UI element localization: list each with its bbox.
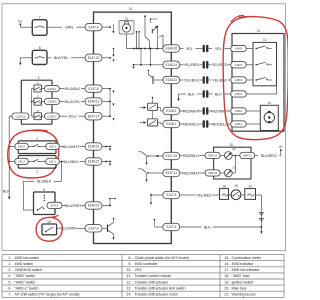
box S13 limit switch (253, 38, 277, 86)
wire fuse 20 to ground junction (256, 195, 264, 234)
svg-text:E147-20: E147-20 (88, 56, 100, 60)
fuse F18 4WD fuse (220, 184, 229, 199)
svg-text:3.: 3. (8, 268, 11, 272)
svg-text:11: 11 (129, 7, 133, 11)
svg-text:E147-5: E147-5 (166, 193, 176, 197)
svg-text:20: 20 (248, 184, 252, 188)
svg-text:YEL: YEL (186, 46, 194, 51)
connector G80-16 (205, 170, 220, 176)
svg-text:13: 13 (263, 38, 267, 42)
wire RED/BLU E147-19 to G80-12 (180, 153, 205, 158)
svg-text:8.: 8. (128, 256, 131, 260)
svg-text:BLU/BLK: BLU/BLK (64, 159, 80, 164)
svg-text:Clutch pedal switch (for M/T m: Clutch pedal switch (for M/T model) (135, 256, 189, 260)
svg-text:L48-2: L48-2 (235, 109, 242, 113)
svg-text:7.: 7. (8, 293, 11, 297)
svg-text:10: 10 (47, 220, 51, 224)
wire internal stub E148-15 (102, 198, 116, 207)
connector E147-8 (85, 85, 102, 92)
svg-text:E148-2: E148-2 (166, 109, 176, 113)
red annotation circle around switches 1 and 2 (8, 130, 59, 178)
wire BLU/RED E74-3 to E148-15 (62, 203, 85, 208)
svg-text:E147-19: E147-19 (166, 154, 178, 158)
connector E148-22 (163, 76, 180, 83)
svg-text:"2WD" switch: "2WD" switch (15, 274, 36, 278)
svg-text:Transfer shift actuator limit: Transfer shift actuator limit switch (135, 287, 186, 291)
wire YEL/GRN VSS to E147-9 (57, 226, 85, 231)
wire buzzer to YEL row (126, 34, 128, 49)
svg-text:L48-6: L48-6 (235, 63, 242, 67)
svg-text:L41-2: L41-2 (18, 160, 25, 164)
wire LED junction to G80-21 (232, 155, 240, 173)
connector E148-15 (85, 202, 102, 209)
svg-text:YEL/BLK: YEL/BLK (212, 77, 227, 82)
svg-text:L40-2: L40-2 (18, 145, 25, 149)
transistor cluster inside module 11 (144, 15, 163, 48)
svg-text:YEL/GRN: YEL/GRN (60, 226, 76, 231)
connector E148-2 (163, 107, 180, 114)
connector L48-3 (231, 77, 247, 83)
svg-text:E147-6: E147-6 (166, 225, 176, 229)
connector G80-12 (205, 152, 220, 158)
wire internal YEL/BLK row (148, 70, 163, 84)
svg-text:BLK/RED: BLK/RED (261, 153, 277, 158)
svg-text:G80-16: G80-16 (208, 171, 218, 175)
svg-text:IG: IG (18, 20, 22, 24)
legend table (2, 255, 284, 298)
wire internal stub E148-21 (102, 161, 111, 166)
svg-text:4WD switch: 4WD switch (15, 262, 34, 266)
svg-text:4WD controller: 4WD controller (135, 262, 159, 266)
inline connector on RED/WHT wire (203, 107, 209, 115)
resistor pair inside module 11 (136, 31, 140, 49)
connector G104-10 (12, 113, 29, 119)
switch S19 ignition switch (231, 184, 241, 199)
svg-text:BLU: BLU (69, 114, 76, 119)
wire L41-2 to ground bus (9, 161, 15, 163)
wire BLK ground to L48-4 (179, 91, 231, 96)
relay coil K1 inside module 11 (140, 103, 163, 111)
switch S5 4WD switch (34, 94, 42, 105)
svg-text:A/T shift switch ("N" range) (: A/T shift switch ("N" range) (for A/T mo… (15, 293, 80, 297)
wire internal stub E147-6 (154, 219, 163, 227)
wire internal YEL row (127, 48, 163, 50)
svg-text:10.: 10. (126, 268, 131, 272)
svg-text:L48-5: L48-5 (235, 47, 242, 51)
svg-text:RED/WHT: RED/WHT (183, 108, 201, 113)
svg-text:6.: 6. (8, 287, 11, 291)
wire BLU/YEL G104-3 to E148-13 (59, 99, 85, 104)
svg-text:21: 21 (125, 16, 129, 20)
motor M14 transfer shift actuator motor (260, 101, 278, 130)
svg-text:BLU/WHT: BLU/WHT (63, 144, 80, 149)
wire BLK E147-6 to ground (180, 224, 262, 229)
connector G104-7 (42, 113, 60, 119)
box S2 4WD switch (18, 156, 56, 174)
svg-text:L40-1: L40-1 (49, 145, 56, 149)
switch S4 2WD switch (34, 81, 42, 92)
svg-text:E148-13: E148-13 (88, 100, 100, 104)
box U15 combination meter (214, 143, 251, 179)
svg-text:RED/WHT: RED/WHT (211, 108, 229, 113)
node IG ignition feed (18, 20, 22, 26)
svg-text:Transfer shift actuator: Transfer shift actuator (135, 280, 169, 284)
svg-text:E147-8: E147-8 (89, 87, 99, 91)
svg-text:YEL/RED: YEL/RED (183, 62, 199, 67)
wire internal YEL/RED row (132, 48, 162, 69)
connector E148-21 (85, 158, 102, 165)
connector E147-2 (85, 23, 102, 30)
svg-text:12.: 12. (126, 280, 131, 284)
connector E147-15 (85, 113, 102, 120)
svg-text:1.: 1. (8, 256, 11, 260)
svg-text:16: 16 (232, 147, 236, 151)
wire fuse 18 to ignition switch (229, 194, 232, 196)
svg-text:17.: 17. (224, 268, 229, 272)
red annotation circle around actuator (223, 15, 288, 139)
wire ground to switch 8 (20, 57, 32, 59)
wire YEL/RED E147-5 to fuse 18 (180, 192, 220, 197)
connector L40-1 (46, 143, 60, 149)
connector L41-2 (15, 158, 28, 164)
switch contacts in limit switch 13 (246, 46, 272, 81)
wire ORN switch 7 to E147-2 (47, 25, 85, 30)
wire internal stub E147-5 (150, 194, 163, 205)
wire BLK/RED G80-21 to IG (255, 150, 281, 158)
svg-text:RED/BLU: RED/BLU (212, 121, 228, 126)
svg-text:9: 9 (43, 188, 45, 192)
svg-text:3: 3 (38, 76, 40, 80)
wire IG to switch 7 (20, 24, 32, 27)
connector E74-3 (47, 202, 62, 208)
connector E147-11 (163, 169, 180, 176)
svg-text:5.: 5. (8, 280, 11, 284)
red annotation circle around VSS (36, 215, 62, 241)
svg-text:2.: 2. (8, 262, 11, 266)
wire L40-2 to ground bus (9, 146, 15, 148)
svg-text:15.: 15. (224, 256, 229, 260)
inline connector on RED/BLU wire (203, 120, 209, 128)
svg-text:9.: 9. (128, 262, 131, 266)
svg-text:L48-3: L48-3 (235, 78, 242, 82)
svg-text:E74-3: E74-3 (51, 204, 59, 208)
svg-text:G80-21: G80-21 (243, 154, 253, 158)
connector E147-6 (163, 223, 180, 230)
svg-text:G104-1: G104-1 (47, 87, 57, 91)
svg-text:18: 18 (222, 184, 226, 188)
svg-text:"4WD-L" switch: "4WD-L" switch (15, 287, 39, 291)
svg-text:Warning buzzer: Warning buzzer (232, 293, 257, 297)
box S3 2WD/4WD switch (21, 76, 52, 124)
connector L48-4 (231, 91, 247, 97)
svg-text:YEL/RED: YEL/RED (196, 192, 212, 197)
wire YEL/BLK E148-22 to L48-3 (180, 77, 231, 82)
wire BLU/BLK G104-1 to E147-8 (59, 86, 85, 91)
ground at switch 8 (19, 58, 21, 65)
wire BLU/BLK L41-1 to E148-21 (59, 159, 85, 164)
indicator LED16 4WD indicator (220, 147, 236, 159)
svg-text:E148-15: E148-15 (88, 204, 100, 208)
svg-text:Main fuse: Main fuse (232, 287, 247, 291)
svg-text:20.: 20. (224, 287, 229, 291)
wire internal stub E147-2 (102, 24, 115, 33)
svg-text:E147-2: E147-2 (89, 25, 99, 29)
transistor Q1 output row E147-19 (138, 152, 163, 165)
connector G104-3 (42, 98, 60, 104)
svg-text:2: 2 (36, 170, 38, 174)
wire YEL/RED E148-24 to L48-6 (180, 62, 231, 67)
wire RED/WHT E147-11 to G80-16 (180, 170, 205, 175)
connector E148-13 (85, 98, 102, 105)
connector L41-1 (46, 158, 60, 164)
svg-text:E148-26: E148-26 (166, 47, 178, 51)
svg-text:YEL/RED: YEL/RED (212, 62, 228, 67)
svg-text:YEL/BLK: YEL/BLK (184, 77, 199, 82)
svg-text:11.: 11. (127, 274, 132, 278)
inline connector on BLK wire (203, 90, 209, 98)
connector E147-19 (163, 152, 180, 159)
indicator LED17 4WD low indicator (220, 166, 236, 177)
box S10 VSS (42, 220, 57, 235)
inline connector on YEL/RED wire (203, 61, 209, 69)
relay coil K2 inside module 11 (140, 97, 163, 126)
svg-text:G80-12: G80-12 (208, 154, 218, 158)
svg-text:G104-7: G104-7 (47, 114, 57, 118)
wire L48-2 to motor (246, 110, 260, 112)
connector L40-2 (15, 143, 28, 149)
transistor Q3 near E147-9 (102, 218, 115, 240)
svg-text:RED/WHT: RED/WHT (182, 170, 200, 175)
box M12 transfer shift actuator (232, 29, 284, 131)
svg-text:BLK: BLK (3, 189, 10, 193)
switch S8 clutch pedal switch (32, 46, 47, 64)
svg-text:E147-9: E147-9 (89, 226, 99, 230)
svg-text:BLK: BLK (204, 224, 211, 229)
inline connector on YEL/BLK wire (203, 76, 209, 84)
connector L48-5 (231, 45, 247, 51)
wire internal stub E147-20 (102, 48, 115, 62)
svg-text:Transfer control module: Transfer control module (135, 274, 172, 278)
svg-text:L48-1: L48-1 (235, 122, 242, 126)
svg-text:19: 19 (234, 184, 238, 188)
svg-text:"4WD" switch: "4WD" switch (15, 280, 36, 284)
svg-text:Ignition switch: Ignition switch (232, 280, 254, 284)
wire BLK/YEL switch 8 to E147-20 (47, 55, 85, 60)
svg-text:L41-1: L41-1 (49, 160, 56, 164)
svg-text:"4WD" fuse: "4WD" fuse (232, 274, 250, 278)
svg-text:E148-16: E148-16 (88, 145, 100, 149)
svg-text:BLK: BLK (188, 91, 195, 96)
wire internal stub E148-16 (102, 146, 111, 151)
svg-text:G104-10: G104-10 (16, 114, 26, 118)
svg-text:BLK: BLK (215, 91, 222, 96)
connector L48-6 (231, 62, 247, 68)
connector E148-26 (163, 45, 180, 52)
svg-text:YEL: YEL (215, 46, 223, 51)
svg-text:18.: 18. (224, 274, 229, 278)
box S1 4WD low switch (18, 137, 56, 154)
svg-text:RED/BLU: RED/BLU (183, 153, 199, 158)
buzzer B21 warning buzzer (119, 16, 134, 34)
svg-text:E148-22: E148-22 (166, 78, 178, 82)
box U9 4WD controller (34, 188, 56, 215)
connector L48-1 (231, 121, 247, 127)
svg-text:4WD indicator: 4WD indicator (232, 262, 255, 266)
connector E148-1 (163, 120, 180, 127)
svg-text:BLU/RED: BLU/RED (65, 203, 81, 208)
svg-text:L48-4: L48-4 (235, 92, 242, 96)
svg-text:ORN: ORN (65, 25, 74, 30)
connector E147-20 (85, 54, 102, 61)
connector G80-21 (240, 152, 255, 158)
connector E147-5 (163, 191, 180, 198)
svg-text:1: 1 (36, 137, 38, 141)
svg-text:Combination meter: Combination meter (232, 256, 262, 260)
wire L48-4 common to limit switch (246, 86, 276, 94)
switch contact S2 (28, 159, 46, 162)
svg-text:BLU/YEL: BLU/YEL (65, 99, 81, 104)
inline connector on YEL wire (203, 45, 209, 53)
switch S6 4WD-L switch (34, 109, 42, 120)
svg-text:IG: IG (279, 145, 283, 149)
svg-text:21.: 21. (224, 293, 229, 297)
wire BLU/BLK switch 2 to 4WD controller (23, 161, 62, 210)
connector L48-2 (231, 108, 247, 114)
svg-text:VSS: VSS (135, 268, 143, 272)
svg-text:E147-11: E147-11 (166, 171, 178, 175)
svg-text:12: 12 (257, 29, 261, 33)
switch contact S1 (28, 144, 46, 147)
wire BLU G104-7 to E147-15 (59, 114, 85, 119)
wire ignition switch to fuse 20 (241, 194, 245, 196)
connector E147-9 (85, 225, 102, 232)
svg-text:E148-1: E148-1 (166, 122, 176, 126)
svg-text:7: 7 (39, 16, 41, 20)
wire RED/BLU E148-1 to L48-1 (180, 121, 231, 126)
svg-text:E148-24: E148-24 (166, 63, 178, 67)
connector G104-1 (42, 85, 60, 91)
svg-text:Transfer shift actuator motor: Transfer shift actuator motor (135, 293, 179, 297)
wire RED/WHT E148-2 to L48-2 (180, 108, 231, 113)
wire YEL E148-26 to L48-5 (180, 46, 231, 51)
svg-text:BLU/BLK: BLU/BLK (37, 180, 52, 184)
wire BLK G104-10 to ground (3, 116, 12, 199)
connector E148-24 (163, 61, 180, 68)
wire L48-1 to motor (246, 123, 260, 125)
svg-text:BLK/YEL: BLK/YEL (54, 55, 70, 60)
svg-text:4.: 4. (8, 274, 11, 278)
fuse F20 main fuse (245, 184, 256, 199)
svg-text:BLU/BLK: BLU/BLK (65, 86, 81, 91)
svg-text:2WD/4WD switch: 2WD/4WD switch (15, 268, 42, 272)
switch S7 A/T shift switch (32, 16, 47, 36)
connector E148-16 (85, 143, 102, 150)
svg-text:8: 8 (39, 46, 41, 50)
svg-text:4WD low switch: 4WD low switch (15, 256, 40, 260)
transistor Q2 output row E147-11 (138, 169, 163, 182)
node IG meter feed (279, 145, 283, 151)
wire internal bus rows E147-8 to E147-15 (102, 88, 115, 121)
svg-text:14: 14 (268, 101, 272, 105)
svg-text:RED/BLU: RED/BLU (183, 121, 199, 126)
svg-text:G104-3: G104-3 (47, 100, 57, 104)
svg-text:14.: 14. (126, 293, 131, 297)
module U11 transfer control module box (94, 7, 172, 243)
svg-text:13.: 13. (126, 287, 131, 291)
svg-text:4WD low indicator: 4WD low indicator (232, 268, 261, 272)
wire BLU/WHT L40-1 to E148-16 (59, 144, 85, 149)
ground on BLK actuator wire (177, 94, 179, 101)
svg-text:19.: 19. (224, 280, 229, 284)
wire internal bus of switch 3 (31, 89, 34, 117)
svg-text:E147-15: E147-15 (88, 114, 100, 118)
svg-text:E148-21: E148-21 (88, 160, 100, 164)
svg-text:16.: 16. (224, 262, 229, 266)
